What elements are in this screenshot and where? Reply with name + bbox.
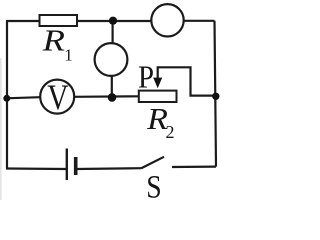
svg-text:S: S [146,168,161,200]
svg-text:P: P [138,59,154,95]
svg-text:R: R [42,24,66,58]
svg-text:2: 2 [166,122,175,142]
svg-text:1: 1 [64,46,73,65]
svg-text:V: V [47,78,69,117]
